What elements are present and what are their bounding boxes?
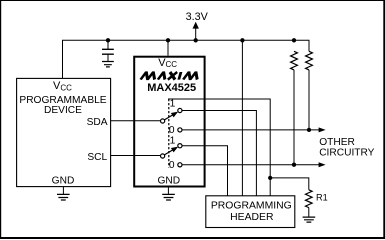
svg-text:1: 1 (170, 99, 176, 110)
svg-text:CIRCUITRY: CIRCUITRY (319, 148, 374, 159)
svg-text:HEADER: HEADER (230, 212, 274, 223)
svg-text:PROGRAMMING: PROGRAMMING (211, 201, 292, 212)
svg-text:GND: GND (52, 175, 75, 186)
svg-text:R1: R1 (316, 192, 328, 202)
svg-text:DEVICE: DEVICE (44, 105, 82, 116)
svg-text:MAX4525: MAX4525 (147, 82, 196, 94)
svg-text:GND: GND (157, 175, 180, 186)
svg-text:SDA: SDA (87, 117, 108, 128)
svg-text:PROGRAMMABLE: PROGRAMMABLE (19, 95, 106, 106)
svg-text:0: 0 (169, 125, 175, 136)
svg-text:0: 0 (169, 160, 175, 171)
svg-text:1: 1 (170, 135, 176, 146)
svg-text:3.3V: 3.3V (186, 11, 209, 23)
svg-text:OTHER: OTHER (319, 137, 355, 148)
svg-text:SCL: SCL (87, 152, 107, 163)
